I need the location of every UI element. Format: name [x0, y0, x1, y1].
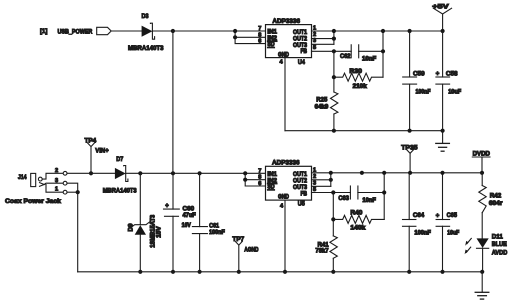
junction C65 top [440, 171, 444, 175]
wire tag to D3 anode [111, 30, 141, 32]
junction D9 top [138, 171, 142, 175]
wire jack pin3 down [67, 183, 78, 272]
svg-text:ADP3336: ADP3336 [272, 159, 300, 166]
capacitor C64 100nF [403, 173, 432, 272]
junction TP4 on rail [89, 171, 93, 175]
diode D3 MBRA140T3 [128, 13, 164, 52]
svg-text:100nF: 100nF [416, 89, 431, 95]
junction C62-R30 vertical [381, 49, 385, 53]
svg-text:15V: 15V [157, 226, 163, 238]
svg-text:TP7: TP7 [232, 236, 244, 243]
svg-text:C58: C58 [446, 70, 458, 77]
resistor R40 140k [333, 210, 384, 232]
wire U5 OUT1 to DVDD rail [312, 172, 483, 174]
wire C62 right to vertical [359, 50, 383, 52]
wire IN2 stub U5 [245, 179, 265, 181]
junction C63-R40 vertical [382, 190, 386, 194]
junction C60 top / long vertical [171, 171, 175, 175]
svg-text:100nF: 100nF [209, 230, 225, 236]
wire output vertical drop to R30 [382, 31, 384, 77]
svg-text:1: 1 [55, 187, 58, 193]
test point TP35 [401, 144, 418, 173]
wire R41 bottom to rail [332, 258, 334, 272]
junction FB node U5 [331, 190, 335, 194]
svg-text:AGND: AGND [244, 247, 259, 254]
wire OUT3 stub [312, 43, 334, 45]
capacitor C65 10uF polarized [436, 173, 460, 272]
junction IN2 tie U5 [243, 178, 247, 182]
junction U5 input tie [243, 171, 247, 175]
junction OUT1 [332, 29, 336, 33]
wire U4 OUT1 to rail [312, 30, 444, 32]
svg-text:GND: GND [278, 195, 289, 201]
wire U4 FB to C62 [312, 50, 352, 52]
svg-text:AVDD: AVDD [492, 249, 508, 256]
svg-text:C60: C60 [183, 206, 195, 213]
junction C58 bottom [441, 129, 445, 133]
junction OUT1 U5 [329, 171, 333, 175]
svg-text:10nF: 10nF [362, 198, 376, 204]
svg-text:OUT1: OUT1 [293, 172, 308, 178]
wire vertical tie IN1-IN2-SD of U4 [235, 31, 265, 44]
junction D9 bottom [138, 270, 142, 274]
wire R25 bottom to mid rail [333, 114, 335, 131]
ground top right [436, 131, 450, 152]
junction IN2 tie [233, 35, 237, 39]
svg-text:2: 2 [55, 168, 58, 174]
svg-text:U5: U5 [298, 200, 305, 207]
svg-text:C63: C63 [338, 195, 349, 202]
junction D11 bottom [480, 270, 484, 274]
wire OUT3 stub U5 [312, 185, 331, 187]
svg-text:3: 3 [55, 178, 58, 184]
junction C59 bottom [408, 129, 412, 133]
resistor R42 604r [479, 173, 503, 239]
svg-text:VIN+: VIN+ [95, 148, 109, 155]
svg-text:C59: C59 [413, 70, 425, 77]
svg-text:SD: SD [267, 185, 275, 191]
svg-text:OUT1: OUT1 [293, 30, 308, 36]
wire U4 GND pin down [284, 58, 286, 131]
ground bottom right [475, 272, 489, 299]
svg-text:DVDD: DVDD [473, 150, 491, 157]
junction OUT2 U5 [329, 178, 333, 182]
resistor R30 210k [334, 68, 383, 90]
junction C59 top [408, 29, 412, 33]
wire vertical tie IN1-IN2-SD of U5 [245, 173, 265, 186]
junction C61 bottom [198, 270, 202, 274]
power DVDD flag [472, 150, 490, 172]
junction R30 left at FB chain [332, 75, 336, 79]
svg-text:5: 5 [313, 45, 316, 51]
resistor R41 78k7 [315, 236, 337, 258]
svg-text:D7: D7 [116, 156, 123, 163]
svg-text:+: + [165, 203, 169, 209]
regulator U4 ADP3336 [258, 18, 316, 66]
junction node at D3 output [171, 29, 175, 33]
svg-text:TP35: TP35 [401, 144, 418, 151]
svg-text:MBRA140T3: MBRA140T3 [103, 187, 137, 194]
capacitor C60 47uF 16V polarized [164, 173, 197, 271]
svg-text:C62: C62 [340, 53, 351, 60]
zener D9 1SMB15AT3 15V [129, 173, 163, 271]
junction C61 top [198, 171, 202, 175]
svg-text:C65: C65 [447, 212, 458, 219]
svg-text:U4: U4 [298, 59, 305, 66]
wire U5 GND pin down [284, 200, 286, 272]
svg-text:210k: 210k [353, 84, 368, 90]
svg-text:47uF: 47uF [183, 213, 197, 219]
wire DVDD vertical drop to R40 [383, 173, 385, 220]
svg-text:604r: 604r [489, 201, 503, 207]
wire IN2 stub [235, 36, 265, 38]
junction pin1/pin3 [76, 190, 80, 194]
svg-text:D11: D11 [492, 233, 503, 240]
svg-text:FB: FB [301, 191, 308, 197]
junction DVDD on rail [480, 171, 484, 175]
svg-text:6: 6 [258, 181, 261, 187]
svg-text:10uF: 10uF [447, 230, 459, 236]
svg-text:BLUE: BLUE [492, 241, 508, 248]
LED D11 BLUE AVDD [465, 233, 508, 271]
svg-text:10nF: 10nF [362, 56, 377, 62]
test point TP7 AGND [232, 236, 258, 272]
svg-text:SD: SD [267, 42, 275, 48]
wire mid ground rail [285, 130, 443, 132]
svg-text:FB: FB [301, 49, 308, 55]
junction extra on DVDD rail [360, 171, 364, 175]
svg-text:Coax Power Jack: Coax Power Jack [5, 198, 61, 205]
wire bottom ground rail [78, 271, 483, 273]
svg-text:USB_POWER: USB_POWER [58, 28, 93, 35]
svg-text:J14: J14 [18, 174, 27, 181]
connector J14 coax power jack [5, 168, 67, 205]
wire OUT2 stub [312, 38, 334, 40]
junction rail at 384 [382, 171, 386, 175]
junction FB node [332, 49, 336, 53]
svg-text:78k7: 78k7 [315, 249, 329, 255]
wire D7 cathode to U5 inputs [126, 172, 266, 174]
wire OUT tie vertical [333, 31, 335, 44]
svg-text:7: 7 [258, 168, 261, 174]
svg-text:7: 7 [258, 26, 261, 32]
test point TP4 [85, 138, 109, 174]
svg-text:8: 8 [258, 175, 261, 181]
svg-text:140k: 140k [350, 225, 366, 231]
svg-text:100nF: 100nF [414, 230, 431, 236]
power +5V [432, 3, 451, 31]
svg-text:OUT3: OUT3 [293, 43, 308, 49]
resistor R25 64k9 [315, 92, 338, 114]
svg-text:16V: 16V [182, 223, 191, 229]
svg-text:TP4: TP4 [85, 138, 97, 145]
wire OUT tie vertical U5 [330, 173, 332, 187]
svg-text:6: 6 [258, 39, 261, 45]
svg-text:R41: R41 [318, 241, 329, 248]
junction +5V on rail [441, 29, 445, 33]
wire FB down to R41 [332, 193, 334, 236]
wire D3 cathode to U4 inputs [152, 30, 265, 32]
svg-text:OUT3: OUT3 [293, 185, 308, 191]
svg-text:IN2: IN2 [267, 36, 277, 42]
capacitor C61 100nF [192, 173, 225, 271]
svg-text:GND: GND [278, 52, 289, 58]
svg-text:+: + [436, 214, 440, 220]
svg-text:10uF: 10uF [448, 89, 461, 95]
wire C63 right to vertical [358, 192, 384, 194]
capacitor C58 10uF polarized [436, 31, 462, 131]
svg-text:IN1: IN1 [267, 30, 277, 36]
junction U5 GND bottom [283, 270, 287, 274]
junction R41 bottom [331, 270, 335, 274]
capacitor C59 100nF [403, 31, 431, 131]
junction rail at 383 [381, 29, 385, 33]
svg-text:R42: R42 [490, 193, 502, 200]
wire jack pin2 to D7 [67, 172, 115, 174]
junction R25 on mid rail [332, 129, 336, 133]
svg-text:D3: D3 [142, 13, 149, 20]
wire FB down to R25 [333, 51, 335, 92]
svg-text:MBRA140T3: MBRA140T3 [128, 45, 164, 52]
svg-text:R25: R25 [316, 96, 327, 103]
junction C60 bottom [171, 270, 175, 274]
junction C65 bottom [440, 270, 444, 274]
junction on input rail [233, 29, 237, 33]
junction TP35 on rail [408, 171, 412, 175]
svg-text:64k9: 64k9 [315, 105, 329, 111]
svg-text:3: 3 [313, 181, 316, 187]
svg-text:2: 2 [313, 32, 316, 38]
wire jack pin1 join [67, 191, 78, 193]
wire U5 FB to C63 [312, 192, 351, 194]
junction TP7 on rail [237, 270, 241, 274]
svg-text:8: 8 [258, 32, 261, 38]
regulator U5 ADP3336 [258, 159, 316, 209]
capacitor C63 10nF [338, 186, 376, 204]
svg-text:OUT2: OUT2 [293, 37, 308, 43]
diode D7 MBRA140T3 [103, 156, 137, 194]
svg-text:C61: C61 [209, 222, 219, 229]
wire long vertical from D3 node [172, 31, 174, 173]
junction C64 bottom [407, 270, 411, 274]
svg-text:C64: C64 [413, 212, 425, 219]
svg-text:IN1: IN1 [267, 172, 277, 178]
junction R40 left [331, 217, 335, 221]
node USB_POWER tag [1] [40, 27, 111, 35]
svg-text:OUT2: OUT2 [293, 179, 308, 185]
svg-text:[1]: [1] [40, 28, 47, 35]
junction OUT2 [332, 37, 336, 41]
capacitor C62 10nF [340, 45, 377, 63]
wire OUT2 stub U5 [312, 179, 331, 181]
svg-text:IN2: IN2 [267, 178, 277, 184]
